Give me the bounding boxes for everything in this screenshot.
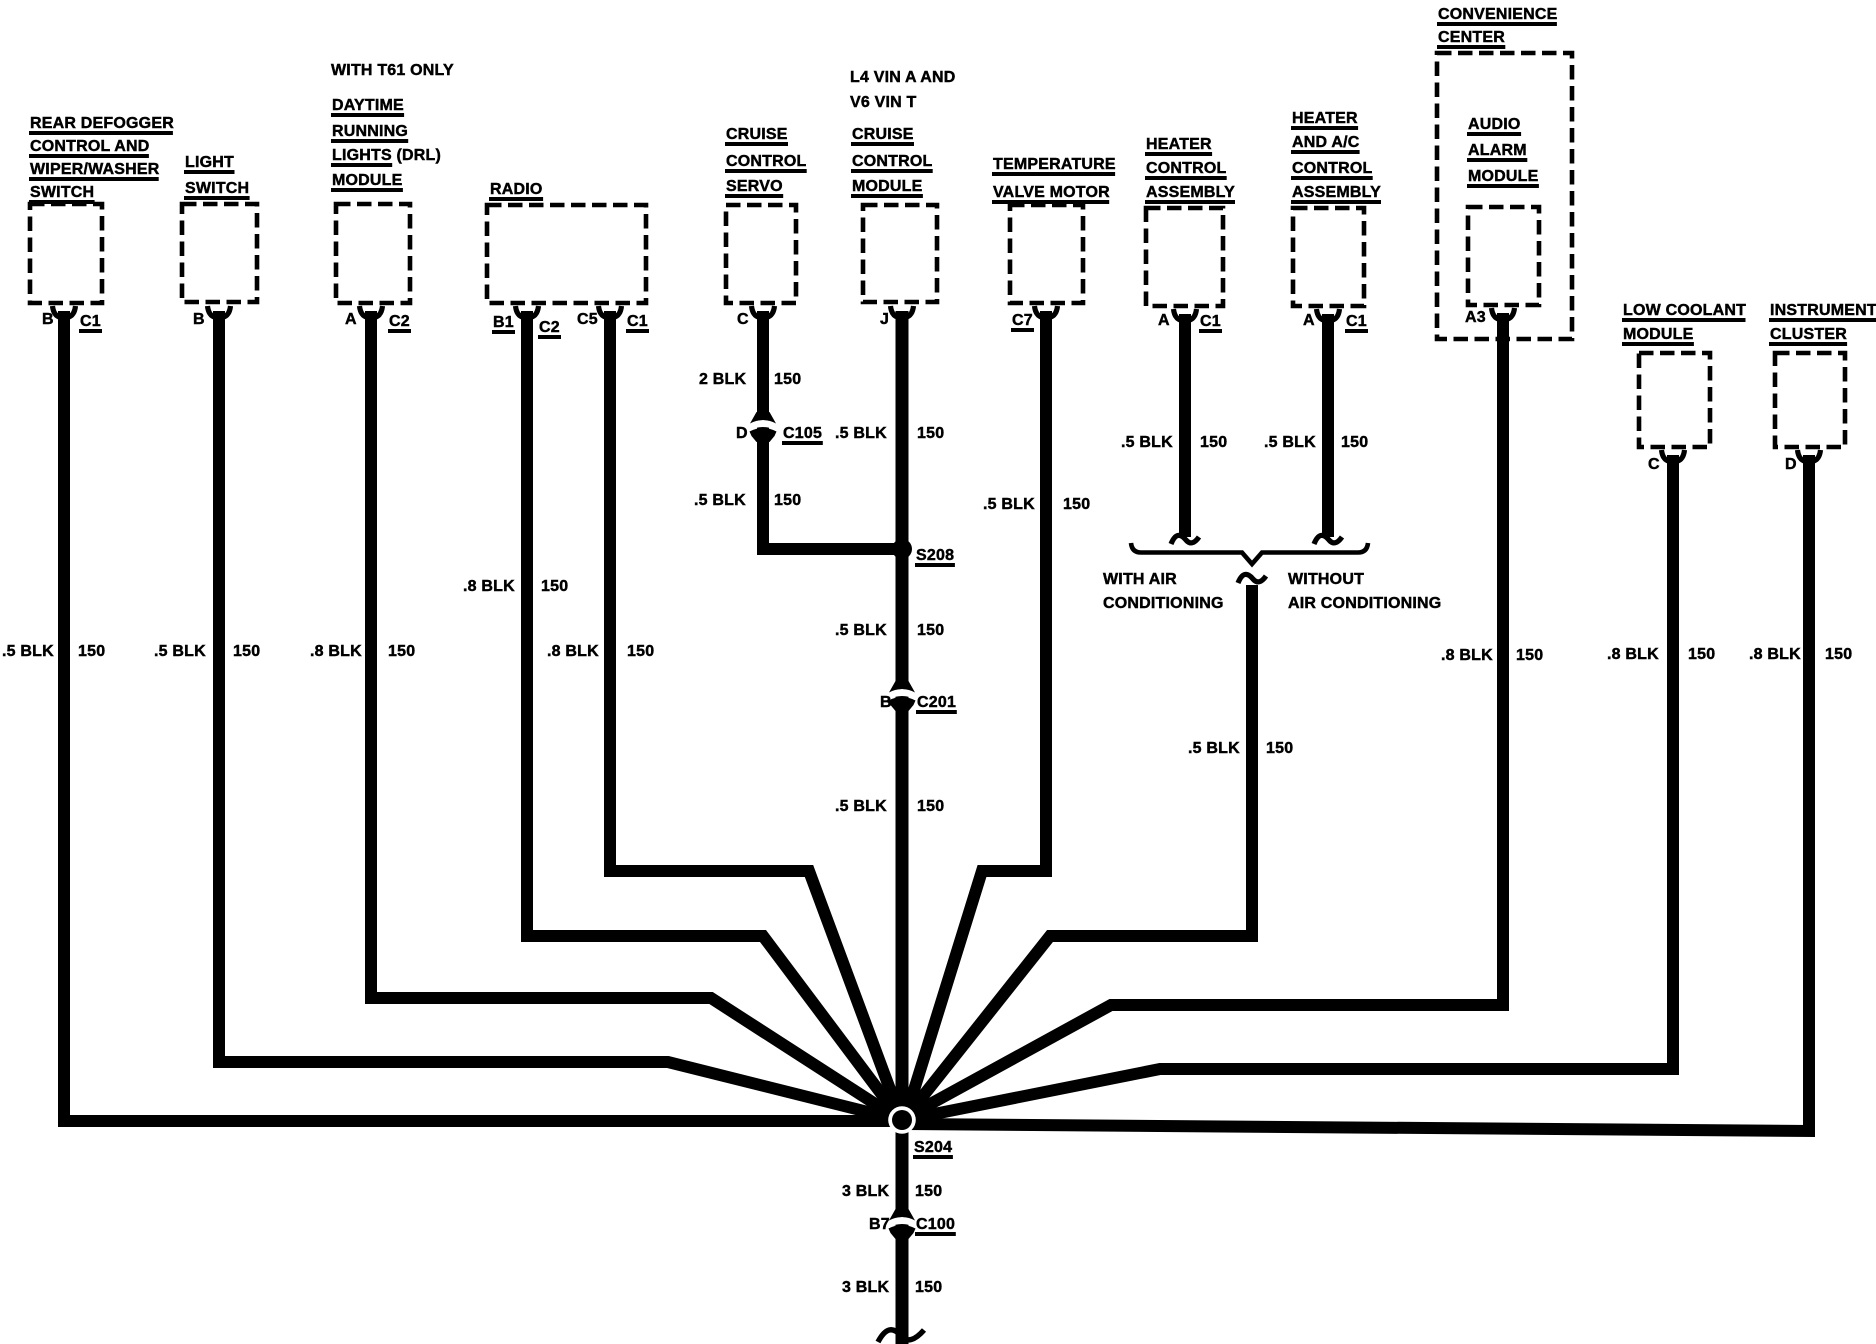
svg-text:L4 VIN A AND: L4 VIN A AND: [850, 69, 956, 86]
wire: radio ground .8 BLK 150, pin B1 C2 to splice S204: [527, 311, 901, 1120]
component box: low coolant module: [1639, 353, 1710, 447]
svg-text:.5 BLK: .5 BLK: [835, 798, 887, 815]
label: connector C201 pin B: [880, 694, 957, 714]
label: radio C5 wire label: [547, 643, 654, 660]
label: pin A of heater control assembly: [1158, 312, 1170, 329]
svg-text:.8 BLK: .8 BLK: [547, 643, 599, 660]
svg-text:LIGHT: LIGHT: [185, 154, 234, 171]
svg-text:C1: C1: [80, 313, 101, 330]
svg-text:.5 BLK: .5 BLK: [694, 492, 746, 509]
svg-text:C5: C5: [577, 311, 598, 328]
label: pin B1 of radio: [492, 314, 515, 334]
svg-text:A: A: [345, 311, 357, 328]
component box: light switch: [182, 204, 257, 302]
wire: low coolant module ground .8 BLK 150, pin C to splice S204: [904, 455, 1673, 1120]
svg-text:ASSEMBLY: ASSEMBLY: [1292, 184, 1381, 201]
svg-text:.5 BLK: .5 BLK: [835, 622, 887, 639]
label: connector C1 of heater A/C control assembly: [1345, 313, 1368, 333]
svg-text:C: C: [1648, 456, 1660, 473]
svg-text:150: 150: [774, 371, 801, 388]
svg-text:.8 BLK: .8 BLK: [1607, 646, 1659, 663]
svg-text:VALVE MOTOR: VALVE MOTOR: [993, 184, 1110, 201]
svg-text:LOW COOLANT: LOW COOLANT: [1623, 302, 1746, 319]
svg-text:C100: C100: [916, 1216, 955, 1233]
label: low coolant wire label: [1607, 646, 1715, 663]
wire: heater control assembly ground .5 BLK 150, pin A C1 (with air conditioning): [1179, 314, 1191, 537]
svg-text:.8 BLK: .8 BLK: [1441, 647, 1493, 664]
connector C100 symbol (pin B7) on trunk wire: [887, 1217, 917, 1228]
component box: radio: [487, 205, 646, 303]
label: CONVENIENCE CENTER: [1437, 6, 1558, 49]
hooked end of heater and A/C control assembly wire: [1314, 535, 1342, 544]
svg-text:B1: B1: [493, 314, 514, 331]
label: LIGHT SWITCH: [184, 154, 250, 200]
svg-text:150: 150: [1341, 434, 1368, 451]
svg-text:A: A: [1303, 312, 1315, 329]
svg-text:B: B: [880, 694, 892, 711]
label: cruise module wire label below C201: [835, 798, 944, 815]
splice S204 dot: [892, 1110, 912, 1130]
label: heater control wire label: [1121, 434, 1227, 451]
label: CRUISE CONTROL MODULE: [851, 126, 933, 198]
svg-text:MODULE: MODULE: [332, 172, 403, 189]
svg-text:V6 VIN T: V6 VIN T: [850, 94, 917, 111]
svg-text:C1: C1: [1346, 313, 1367, 330]
brace joining heater wires (with/without air conditioning): [1131, 543, 1368, 564]
svg-text:HEATER: HEATER: [1146, 136, 1212, 153]
label: cruise module wire label above S208: [835, 425, 944, 442]
svg-text:SWITCH: SWITCH: [185, 180, 249, 197]
label: connector C7 of temperature valve motor: [1011, 312, 1034, 332]
svg-text:C105: C105: [783, 425, 822, 442]
label: trunk wire label 3 BLK above C100: [842, 1183, 942, 1200]
component box: cruise control servo: [726, 205, 796, 303]
svg-text:150: 150: [1266, 740, 1293, 757]
label: REAR DEFOGGER CONTROL AND WIPER/WASHER SWITCH: [29, 115, 174, 204]
svg-text:SERVO: SERVO: [726, 178, 783, 195]
connector horns: rear defogger switch pin B: [53, 306, 76, 317]
connector horns: temperature valve motor pin C7: [1035, 306, 1058, 317]
connector horns: cruise module pin J: [891, 306, 914, 317]
svg-text:150: 150: [78, 643, 105, 660]
svg-text:150: 150: [1516, 647, 1543, 664]
label: connector C1 of rear defogger switch: [79, 313, 102, 333]
svg-text:REAR DEFOGGER: REAR DEFOGGER: [30, 115, 174, 132]
svg-text:WITHOUT: WITHOUT: [1288, 571, 1364, 588]
hooked end of heater control assembly wire: [1171, 535, 1199, 544]
label: heater common wire label: [1188, 740, 1293, 757]
label: pin C of cruise servo: [737, 311, 749, 328]
svg-text:CONTROL: CONTROL: [852, 153, 933, 170]
svg-text:RADIO: RADIO: [490, 181, 543, 198]
connector C201 symbol (pin B) on cruise module wire: [887, 689, 917, 700]
label: L4 VIN A AND V6 VIN T: [850, 69, 956, 111]
wire: rear defogger ground .5 BLK 150, pin B C1 to splice S204: [64, 311, 897, 1121]
svg-text:.5 BLK: .5 BLK: [1121, 434, 1173, 451]
svg-text:150: 150: [915, 1279, 942, 1296]
svg-text:C2: C2: [539, 319, 560, 336]
connector horns: radio pin C5: [599, 306, 622, 317]
svg-text:WITH AIR: WITH AIR: [1103, 571, 1177, 588]
svg-text:CONTROL: CONTROL: [726, 153, 807, 170]
svg-text:A3: A3: [1465, 309, 1486, 326]
component box: rear defogger control and wiper/washer switch: [30, 204, 102, 303]
svg-text:INSTRUMENT: INSTRUMENT: [1770, 302, 1876, 319]
label: AUDIO ALARM MODULE: [1467, 116, 1539, 188]
connector horns: instrument cluster pin D: [1798, 450, 1821, 461]
wire: heater and A/C control assembly ground .5 BLK 150, pin A C1 (without air conditioning): [1322, 314, 1334, 537]
wire: temperature valve motor ground .5 BLK 150, pin C7 to splice S204: [905, 311, 1046, 1119]
label: with air conditioning: [1103, 571, 1224, 612]
svg-text:CLUSTER: CLUSTER: [1770, 326, 1847, 343]
wire: audio alarm module ground .8 BLK 150, pin A3 to splice S204: [903, 313, 1503, 1119]
wire: light switch ground .5 BLK 150, pin B to splice S204: [219, 311, 900, 1120]
svg-text:S204: S204: [914, 1139, 952, 1156]
svg-text:.5 BLK: .5 BLK: [2, 643, 54, 660]
svg-text:.5 BLK: .5 BLK: [835, 425, 887, 442]
svg-text:B: B: [193, 311, 205, 328]
svg-text:150: 150: [627, 643, 654, 660]
label: connector C1 of heater control assembly: [1199, 313, 1222, 333]
label: connector C2 of radio: [538, 319, 561, 339]
label: pin C of low coolant module: [1648, 456, 1660, 473]
svg-text:150: 150: [917, 798, 944, 815]
connector horns: audio alarm module pin A3: [1492, 308, 1515, 319]
svg-text:CENTER: CENTER: [1438, 29, 1505, 46]
svg-text:D: D: [1785, 456, 1797, 473]
svg-text:CONTROL AND: CONTROL AND: [30, 138, 150, 155]
wire: cruise control servo ground 2 BLK / .5 BLK 150, pin C to splice S208: [763, 311, 900, 549]
label: without air conditioning: [1288, 571, 1441, 612]
splice S208 dot: [892, 539, 912, 559]
svg-text:3 BLK: 3 BLK: [842, 1279, 889, 1296]
svg-text:CONVENIENCE: CONVENIENCE: [1438, 6, 1558, 23]
svg-text:A: A: [1158, 312, 1170, 329]
label: LOW COOLANT MODULE: [1622, 302, 1746, 346]
svg-text:C201: C201: [917, 694, 956, 711]
label: pin B of light switch: [193, 311, 205, 328]
label: pin A of DRL module: [345, 311, 357, 328]
svg-text:150: 150: [915, 1183, 942, 1200]
svg-text:150: 150: [1063, 496, 1090, 513]
label: HEATER AND A/C CONTROL ASSEMBLY: [1291, 110, 1381, 204]
connector horns: DRL module pin A: [360, 306, 383, 317]
svg-text:150: 150: [1200, 434, 1227, 451]
label: cruise servo wire label 2 BLK: [699, 371, 801, 388]
label: instrument cluster wire label: [1749, 646, 1852, 663]
label: rear defogger wire label: [2, 643, 105, 660]
svg-text:S208: S208: [916, 547, 954, 564]
svg-text:WIPER/WASHER: WIPER/WASHER: [30, 161, 160, 178]
connector C105 symbol (pin D) on cruise servo wire: [748, 420, 778, 431]
label: DAYTIME RUNNING LIGHTS (DRL) MODULE: [331, 97, 441, 192]
svg-text:TEMPERATURE: TEMPERATURE: [993, 156, 1116, 173]
svg-text:CONTROL: CONTROL: [1292, 160, 1373, 177]
svg-text:150: 150: [233, 643, 260, 660]
svg-text:AIR CONDITIONING: AIR CONDITIONING: [1288, 595, 1441, 612]
label: pin B of rear defogger switch: [42, 311, 54, 328]
svg-text:150: 150: [917, 425, 944, 442]
label: pin D of instrument cluster: [1785, 456, 1797, 473]
svg-text:.5 BLK: .5 BLK: [154, 643, 206, 660]
label: WITH T61 ONLY: [331, 62, 454, 79]
svg-text:MODULE: MODULE: [852, 178, 923, 195]
component box: instrument cluster: [1775, 353, 1845, 447]
svg-text:ASSEMBLY: ASSEMBLY: [1146, 184, 1235, 201]
svg-text:150: 150: [917, 622, 944, 639]
label: HEATER CONTROL ASSEMBLY: [1145, 136, 1235, 204]
label: trunk wire label 3 BLK below C100: [842, 1279, 942, 1296]
component box: daytime running lights (DRL) module: [336, 204, 410, 303]
label: heater A/C control wire label: [1264, 434, 1368, 451]
component box: heater control assembly: [1146, 208, 1223, 306]
wire: heater brace common ground .5 BLK 150 to splice S204: [904, 585, 1252, 1120]
label: splice S204: [913, 1139, 953, 1159]
label: TEMPERATURE VALVE MOTOR: [992, 156, 1116, 204]
wire: instrument cluster ground .8 BLK 150, pin D to splice S204: [906, 455, 1809, 1131]
svg-text:LIGHTS (DRL): LIGHTS (DRL): [332, 147, 441, 164]
svg-text:AND A/C: AND A/C: [1292, 134, 1360, 151]
svg-text:D: D: [736, 425, 748, 442]
svg-text:DAYTIME: DAYTIME: [332, 97, 404, 114]
svg-text:.5 BLK: .5 BLK: [983, 496, 1035, 513]
wire: DRL module ground .8 BLK 150, pin A C2 to splice S204: [371, 311, 900, 1120]
svg-text:150: 150: [1825, 646, 1852, 663]
label: cruise module wire label below S208: [835, 622, 944, 639]
label: INSTRUMENT CLUSTER: [1769, 302, 1876, 346]
svg-text:ALARM: ALARM: [1468, 142, 1527, 159]
svg-text:C2: C2: [389, 313, 410, 330]
svg-text:.8 BLK: .8 BLK: [310, 643, 362, 660]
svg-text:.5 BLK: .5 BLK: [1188, 740, 1240, 757]
hooked continuation arrow at bottom of trunk wire: [878, 1330, 924, 1342]
label: RADIO: [489, 181, 543, 201]
label: pin C5 of radio: [577, 311, 598, 328]
component box: convenience center (outer): [1437, 53, 1572, 339]
svg-text:.5 BLK: .5 BLK: [1264, 434, 1316, 451]
connector horns: heater A/C control pin A: [1317, 309, 1340, 320]
label: pin A of heater A/C control assembly: [1303, 312, 1315, 329]
svg-text:CONDITIONING: CONDITIONING: [1103, 595, 1224, 612]
connector horns: radio pin B1: [516, 306, 539, 317]
svg-text:150: 150: [541, 578, 568, 595]
connector horns: light switch pin B: [208, 306, 231, 317]
svg-text:150: 150: [388, 643, 415, 660]
label: splice S208: [915, 547, 955, 567]
svg-text:CRUISE: CRUISE: [726, 126, 788, 143]
wire: cruise control module ground trunk .5 BLK / 3 BLK 150, pin J through S208, C201, S204, C100: [896, 311, 909, 1344]
svg-text:150: 150: [774, 492, 801, 509]
svg-text:3 BLK: 3 BLK: [842, 1183, 889, 1200]
svg-text:MODULE: MODULE: [1623, 326, 1694, 343]
svg-text:.8 BLK: .8 BLK: [1749, 646, 1801, 663]
svg-text:AUDIO: AUDIO: [1468, 116, 1521, 133]
svg-text:B7: B7: [869, 1216, 890, 1233]
svg-text:C1: C1: [627, 313, 648, 330]
connector horns: heater control pin A: [1174, 309, 1197, 320]
label: cruise servo wire label .5 BLK: [694, 492, 801, 509]
hooked start of common heater ground wire below brace: [1238, 574, 1266, 583]
label: pin J of cruise module: [880, 311, 889, 328]
connector horns: cruise servo pin C: [752, 306, 775, 317]
svg-text:150: 150: [1688, 646, 1715, 663]
svg-text:MODULE: MODULE: [1468, 168, 1539, 185]
connector horns: low coolant module pin C: [1662, 450, 1685, 461]
svg-text:C7: C7: [1012, 312, 1033, 329]
component box: temperature valve motor: [1010, 205, 1083, 303]
svg-text:C: C: [737, 311, 749, 328]
label: CRUISE CONTROL SERVO: [725, 126, 807, 198]
svg-text:RUNNING: RUNNING: [332, 123, 408, 140]
label: radio B1 wire label: [463, 578, 568, 595]
label: light switch wire label: [154, 643, 260, 660]
label: DRL wire label: [310, 643, 415, 660]
label: temperature valve motor wire label: [983, 496, 1090, 513]
svg-text:B: B: [42, 311, 54, 328]
svg-text:.8 BLK: .8 BLK: [463, 578, 515, 595]
wire: radio ground .8 BLK 150, pin C5 C1 to splice S204: [610, 311, 901, 1119]
label: connector C105 pin D: [736, 425, 823, 445]
component box: heater and A/C control assembly: [1293, 208, 1364, 306]
label: connector C2 of DRL module: [388, 313, 411, 333]
svg-text:SWITCH: SWITCH: [30, 184, 94, 201]
svg-text:HEATER: HEATER: [1292, 110, 1358, 127]
svg-text:CONTROL: CONTROL: [1146, 160, 1227, 177]
label: audio alarm wire label: [1441, 647, 1543, 664]
svg-text:C1: C1: [1200, 313, 1221, 330]
component box: cruise control module: [863, 205, 937, 302]
svg-text:WITH T61 ONLY: WITH T61 ONLY: [331, 62, 454, 79]
svg-text:J: J: [880, 311, 889, 328]
component box: audio alarm module (inner): [1468, 207, 1539, 305]
label: pin A3 of audio alarm module: [1465, 309, 1486, 326]
svg-text:CRUISE: CRUISE: [852, 126, 914, 143]
label: connector C1 of radio: [626, 313, 649, 333]
splice S204 (white isolation ring): [888, 1106, 916, 1134]
svg-text:2 BLK: 2 BLK: [699, 371, 746, 388]
label: connector C100 pin B7: [869, 1216, 956, 1236]
